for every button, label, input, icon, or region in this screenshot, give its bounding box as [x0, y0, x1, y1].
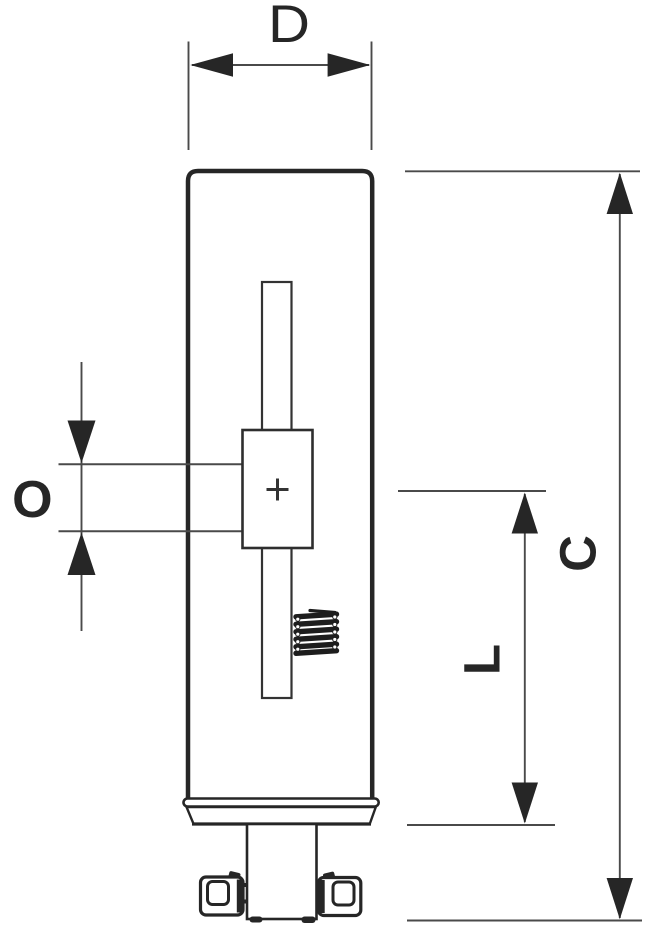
- svg-text:O: O: [12, 471, 52, 529]
- svg-text:L: L: [454, 644, 511, 675]
- svg-text:D: D: [268, 0, 310, 54]
- svg-text:C: C: [549, 535, 606, 572]
